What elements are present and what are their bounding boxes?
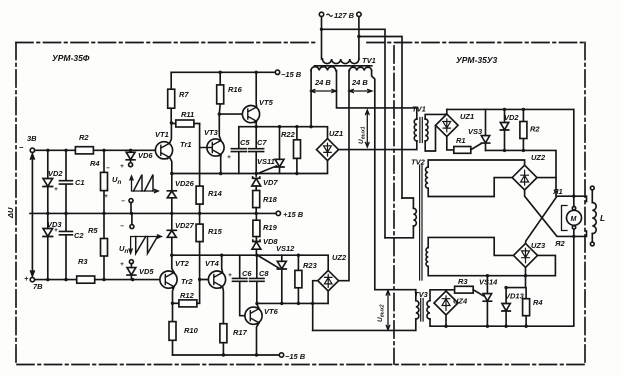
resistor R1 — [454, 147, 471, 154]
transformer TV1 right: primary winding — [414, 119, 417, 141]
wire armature Ya2 hook — [574, 231, 587, 236]
terminal -15V bottom — [279, 353, 283, 357]
svg-text:R7: R7 — [179, 90, 189, 99]
label ~127V — [327, 14, 333, 16]
wire UZ1r bottom corner to R1 — [447, 137, 454, 150]
transformer TV1 core — [314, 65, 371, 67]
wire emitters rail y173.5 — [172, 161, 328, 174]
wire UZ2left right corner up (to TV1 sec2-left) — [339, 71, 349, 281]
thyristor VS3 — [481, 136, 489, 143]
wire TV2 primary bottom — [385, 226, 413, 238]
wire rail A — [486, 150, 557, 196]
transistor VT6 — [245, 307, 262, 324]
wire VT6 emitter — [257, 323, 260, 355]
svg-text:−: − — [106, 165, 110, 172]
wire TV2 primary top — [402, 198, 413, 208]
bridge UZ2 right — [512, 165, 537, 190]
resistor R3 — [77, 276, 95, 283]
svg-text:24 В: 24 В — [314, 78, 331, 87]
wire UZ3r top diagonal to armature Ya1 — [526, 196, 574, 243]
inductor L — [590, 186, 594, 190]
wire UZ2left left corner loop — [313, 281, 318, 331]
transformer TV1 primary winding — [323, 59, 359, 64]
thyristor VS12 — [277, 261, 286, 269]
arrow 24V secondary1 — [310, 89, 336, 92]
svg-text:R23: R23 — [303, 261, 318, 270]
transistor VT5 — [242, 106, 259, 123]
wire base VT5 — [219, 113, 242, 115]
svg-text:+: + — [228, 272, 232, 279]
svg-text:UZ2: UZ2 — [332, 253, 347, 262]
svg-text:R14: R14 — [208, 189, 223, 198]
resistor R4 right — [523, 299, 530, 316]
svg-text:+: + — [227, 154, 231, 161]
svg-text:VT6: VT6 — [264, 307, 279, 316]
wire TV1r secondary top to UZ1r — [425, 114, 447, 119]
transistor VT4 — [208, 271, 225, 288]
waveform Un upper sawtooth — [130, 176, 158, 193]
motor brush bracket — [562, 206, 568, 231]
capacitor C1 — [60, 181, 73, 184]
svg-text:Tr2: Tr2 — [181, 277, 193, 286]
terminal 127V left — [319, 12, 323, 16]
wire VT2 emitter down — [173, 287, 175, 304]
wire top rail to motor — [447, 109, 574, 196]
capacitor C7 — [249, 127, 264, 178]
wire VT1 emitter down — [170, 157, 172, 173]
wire 127V branch to long vertical 2 — [359, 37, 402, 199]
terminal 127V right — [357, 12, 361, 16]
wire 127V input right — [358, 17, 360, 59]
wire TV1 sec2 right lead down to Uvyx2 top rail — [372, 71, 375, 290]
transformer TV2 secondary 1 — [426, 167, 429, 188]
svg-text:Я2: Я2 — [554, 239, 565, 248]
svg-text:+: + — [120, 261, 124, 268]
svg-text:+: + — [104, 193, 108, 200]
wire VT3 emitter down — [220, 155, 222, 174]
transformer TV3: primary winding — [416, 301, 419, 319]
wire VT4 collector up — [221, 255, 224, 272]
diode VD2 right — [500, 109, 508, 150]
resistor R14 — [196, 186, 203, 204]
resistor R10 — [172, 303, 174, 321]
wire VT4 emitter down to R17 — [222, 287, 225, 324]
wire UZ3r bottom corner down — [525, 267, 527, 287]
svg-text:VS11: VS11 — [257, 157, 275, 166]
wire VT1 collector to R7/R11 node — [170, 123, 172, 143]
svg-text:R22: R22 — [281, 130, 296, 139]
svg-text:UZ4: UZ4 — [453, 297, 468, 306]
resistor R3 right — [455, 286, 474, 293]
svg-text:R10: R10 — [184, 326, 199, 335]
wire -15V bottom rail — [173, 354, 280, 356]
svg-text:C6: C6 — [242, 269, 252, 278]
capacitor C5 — [231, 149, 246, 174]
wire UZ2left bottom corner down — [327, 291, 329, 303]
Uvyx1 arrow — [366, 110, 370, 147]
terminal 7V — [30, 277, 34, 281]
capacitor C6 — [233, 255, 247, 316]
resistor R22 — [296, 127, 298, 140]
bridge UZ1 left — [317, 139, 339, 161]
wire bottom rail 7V — [35, 279, 161, 281]
svg-text:Я1: Я1 — [552, 187, 563, 196]
resistor R7 — [170, 72, 172, 123]
svg-text:+: + — [120, 163, 124, 170]
bridge UZ1 right — [436, 114, 458, 136]
svg-text:VS12: VS12 — [276, 244, 295, 253]
svg-text:R1: R1 — [456, 136, 466, 145]
thyristor VS11 — [275, 159, 284, 167]
delta-U measuring arrow — [31, 154, 35, 276]
wire UZ4 bottom stub — [445, 315, 447, 326]
transistor VT1 — [155, 142, 172, 159]
svg-text:Tr1: Tr1 — [180, 140, 192, 149]
transformer TV1 secondary 1 — [311, 67, 336, 71]
transformer TV3 secondary — [427, 301, 430, 319]
wire collectors rail y255.2 — [172, 255, 328, 270]
pulse terminal plus lower — [129, 260, 133, 264]
terminal -15V top — [275, 70, 279, 74]
wire UZ1 right corner to TV1r primary bottom — [339, 141, 417, 150]
svg-text:VT4: VT4 — [205, 259, 220, 268]
svg-text:TV2: TV2 — [411, 158, 426, 167]
svg-text:ΔU: ΔU — [6, 207, 15, 219]
junction dots 127V — [320, 28, 361, 39]
svg-text:R11: R11 — [181, 110, 194, 119]
svg-text:C1: C1 — [75, 178, 85, 187]
resistor R4 — [103, 150, 105, 213]
transformer TV1 secondary 2 — [349, 67, 371, 70]
svg-text:VD27: VD27 — [175, 221, 195, 230]
wire 127V input left — [321, 17, 323, 59]
svg-text:VS3: VS3 — [468, 127, 483, 136]
wire top rail 3V — [35, 149, 156, 151]
svg-text:R2: R2 — [79, 133, 89, 142]
svg-text:TV1: TV1 — [362, 56, 376, 65]
wire TV2 sec2 top staircase to UZ3r left — [428, 237, 513, 255]
wire VT6 collector — [257, 303, 259, 308]
terminal 3V — [30, 148, 34, 152]
svg-text:УРМ-35Ф: УРМ-35Ф — [52, 53, 90, 63]
svg-text:3В: 3В — [27, 134, 37, 143]
svg-text:VD7: VD7 — [263, 178, 278, 187]
junction dots left block — [46, 149, 134, 282]
svg-text:−: − — [120, 223, 124, 230]
transformer TV2: primary winding — [413, 208, 416, 226]
svg-text:R15: R15 — [208, 227, 223, 236]
svg-text:VT1: VT1 — [155, 130, 169, 139]
wire UZ2r right corner stub — [537, 177, 556, 179]
diode VD27 — [167, 230, 176, 237]
svg-text:VT2: VT2 — [175, 259, 190, 268]
wire armature Ya1 hook — [574, 196, 587, 201]
svg-text:R2: R2 — [530, 125, 540, 134]
transformer TV2 core — [420, 165, 422, 280]
svg-text:R12: R12 — [180, 291, 195, 300]
svg-text:VD13: VD13 — [505, 292, 525, 301]
wire VT3 collector up — [219, 114, 221, 140]
waveform Un lower sawtooth — [129, 235, 161, 254]
svg-text:VD26: VD26 — [175, 179, 195, 188]
wire VD13-R4 top rail — [506, 288, 526, 299]
wire rail y107.9 sec1-right to TV1r primary top — [337, 71, 417, 120]
wire TV3 sec top to UZ4/R3 — [430, 290, 455, 301]
zener VD7 — [252, 177, 261, 191]
wire UZ1r top corner to +rail — [446, 109, 448, 114]
wire Uvyx2 bottom rail to TV3 primary — [313, 329, 416, 331]
svg-text:VT3: VT3 — [204, 128, 219, 137]
svg-text:+15 В: +15 В — [283, 210, 304, 219]
svg-text:C8: C8 — [259, 269, 269, 278]
wire VT4 base column — [200, 280, 209, 304]
wire TV2 sec2 bottom to UZ3r right — [428, 255, 555, 275]
svg-text:C7: C7 — [257, 138, 267, 147]
capacitor C2 — [60, 231, 73, 234]
svg-text:R17: R17 — [233, 328, 248, 337]
resistor R23 — [297, 255, 299, 270]
svg-text:TV3: TV3 — [414, 290, 429, 299]
svg-text:C5: C5 — [240, 138, 250, 147]
wire VT5 collector to -15V rail — [255, 72, 257, 107]
wire VT6 collector rail y303.4 — [257, 302, 328, 304]
svg-text:C2: C2 — [74, 231, 84, 240]
junction dots right section — [444, 108, 575, 328]
Uvyx2 arrow — [386, 291, 390, 330]
wire UZ4 top stub — [445, 290, 447, 291]
svg-text:−: − — [19, 143, 24, 152]
svg-text:VD6: VD6 — [138, 151, 153, 160]
resistor R5 — [103, 213, 105, 279]
svg-text:VD5: VD5 — [139, 267, 154, 276]
svg-text:VD2: VD2 — [48, 169, 63, 178]
wire TV3 primary bottom — [415, 319, 417, 330]
svg-text:VS14: VS14 — [479, 278, 498, 287]
svg-text:+: + — [24, 274, 29, 283]
svg-text:R4: R4 — [533, 298, 543, 307]
svg-text:UZ1: UZ1 — [329, 129, 343, 138]
svg-text:VD2: VD2 — [504, 113, 519, 122]
wire Uvyx2 top rail to TV3 primary — [375, 289, 415, 291]
diode VD3 — [43, 229, 53, 237]
wire TV2 sec1 bottom staircase to UZ2r left — [428, 178, 512, 197]
svg-text:−15 В: −15 В — [281, 70, 302, 79]
svg-text:M: M — [571, 216, 577, 223]
transistor VT3 — [207, 139, 224, 156]
wire VT5 emitter down — [255, 121, 257, 127]
resistor R19 — [255, 213, 257, 220]
wire sec1-left drop — [310, 71, 312, 127]
wire 127V branch to long vertical 1 — [322, 29, 386, 238]
zener VD8 — [252, 237, 261, 256]
transformer TV2 secondary 2 — [426, 248, 428, 267]
wire bottom rail right section — [430, 236, 574, 326]
svg-text:R3: R3 — [458, 277, 468, 286]
wire -15V top rail — [171, 71, 275, 73]
svg-text:R3: R3 — [78, 257, 88, 266]
svg-text:R19: R19 — [263, 223, 278, 232]
bridge UZ4 — [434, 291, 458, 315]
svg-text:−15 В: −15 В — [285, 352, 306, 361]
junction dots transistor block — [170, 71, 313, 215]
svg-text:UZ1: UZ1 — [460, 112, 474, 121]
svg-text:7В: 7В — [33, 282, 43, 291]
resistor R11 — [171, 123, 199, 125]
svg-text:+: + — [54, 227, 58, 234]
svg-text:R16: R16 — [228, 85, 243, 94]
capacitor C8 — [250, 255, 264, 303]
svg-text:R5: R5 — [88, 226, 98, 235]
svg-text:−: − — [121, 198, 125, 205]
wire TV3 primary top — [415, 290, 417, 301]
border frame dash-dot — [16, 43, 585, 365]
wire VD26/27 column — [171, 174, 173, 256]
resistor R12 — [173, 302, 179, 304]
motor M armature — [573, 196, 575, 236]
pulse terminal minus upper — [129, 199, 133, 203]
bridge UZ2 left — [318, 270, 339, 291]
wire upper caps top rail — [239, 127, 328, 149]
wire TV2 sec1 top to UZ2r top — [428, 160, 524, 167]
transformer TV3 core — [421, 299, 423, 322]
transformer TV1 right: secondary winding — [425, 119, 428, 141]
svg-text:R18: R18 — [263, 195, 278, 204]
terminal +15V — [276, 211, 280, 215]
svg-text:UZ3: UZ3 — [531, 241, 546, 250]
diode VD13 — [502, 288, 510, 327]
svg-text:+: + — [54, 186, 58, 193]
junction dots lower-left block — [170, 254, 314, 357]
svg-text:UZ2: UZ2 — [531, 153, 546, 162]
svg-text:L: L — [600, 213, 605, 223]
transformer TV1 right: core — [420, 118, 422, 143]
bridge UZ3 right — [514, 243, 538, 267]
resistor R15 — [199, 213, 201, 224]
wire R11 right to base column — [199, 124, 201, 187]
diode VD2 — [43, 179, 53, 187]
pulse terminal minus lower — [130, 225, 134, 229]
svg-text:R4: R4 — [90, 159, 100, 168]
svg-text:127 В: 127 В — [334, 11, 355, 20]
wire middle rail — [30, 212, 276, 214]
diode VD5 — [127, 264, 136, 280]
resistor R18 — [253, 191, 260, 208]
svg-text:VT5: VT5 — [259, 98, 274, 107]
wire VD2-VD3 column — [47, 150, 49, 279]
wire VT2 collector up — [172, 255, 174, 272]
svg-text:УРМ-35У3: УРМ-35У3 — [456, 55, 498, 65]
wire UZ2r bottom diagonal to armature Ya2 — [525, 190, 574, 236]
transistor VT2 — [160, 271, 177, 288]
resistor R2 right — [522, 109, 524, 150]
arrow 24V secondary2 — [349, 89, 372, 92]
svg-text:24 В: 24 В — [351, 78, 368, 87]
wire TV1r secondary bottom loop to UZ1r left corner — [425, 125, 435, 151]
wire C1-C2 column — [65, 150, 67, 279]
resistor R2 — [75, 147, 93, 154]
diode VD6 and pulse terminal — [126, 150, 135, 162]
diode VD26 — [167, 191, 176, 198]
resistor R17 — [220, 324, 227, 343]
resistor R16 — [218, 72, 221, 114]
svg-text:TV1: TV1 — [412, 105, 426, 114]
thyristor VS14 — [483, 294, 491, 301]
